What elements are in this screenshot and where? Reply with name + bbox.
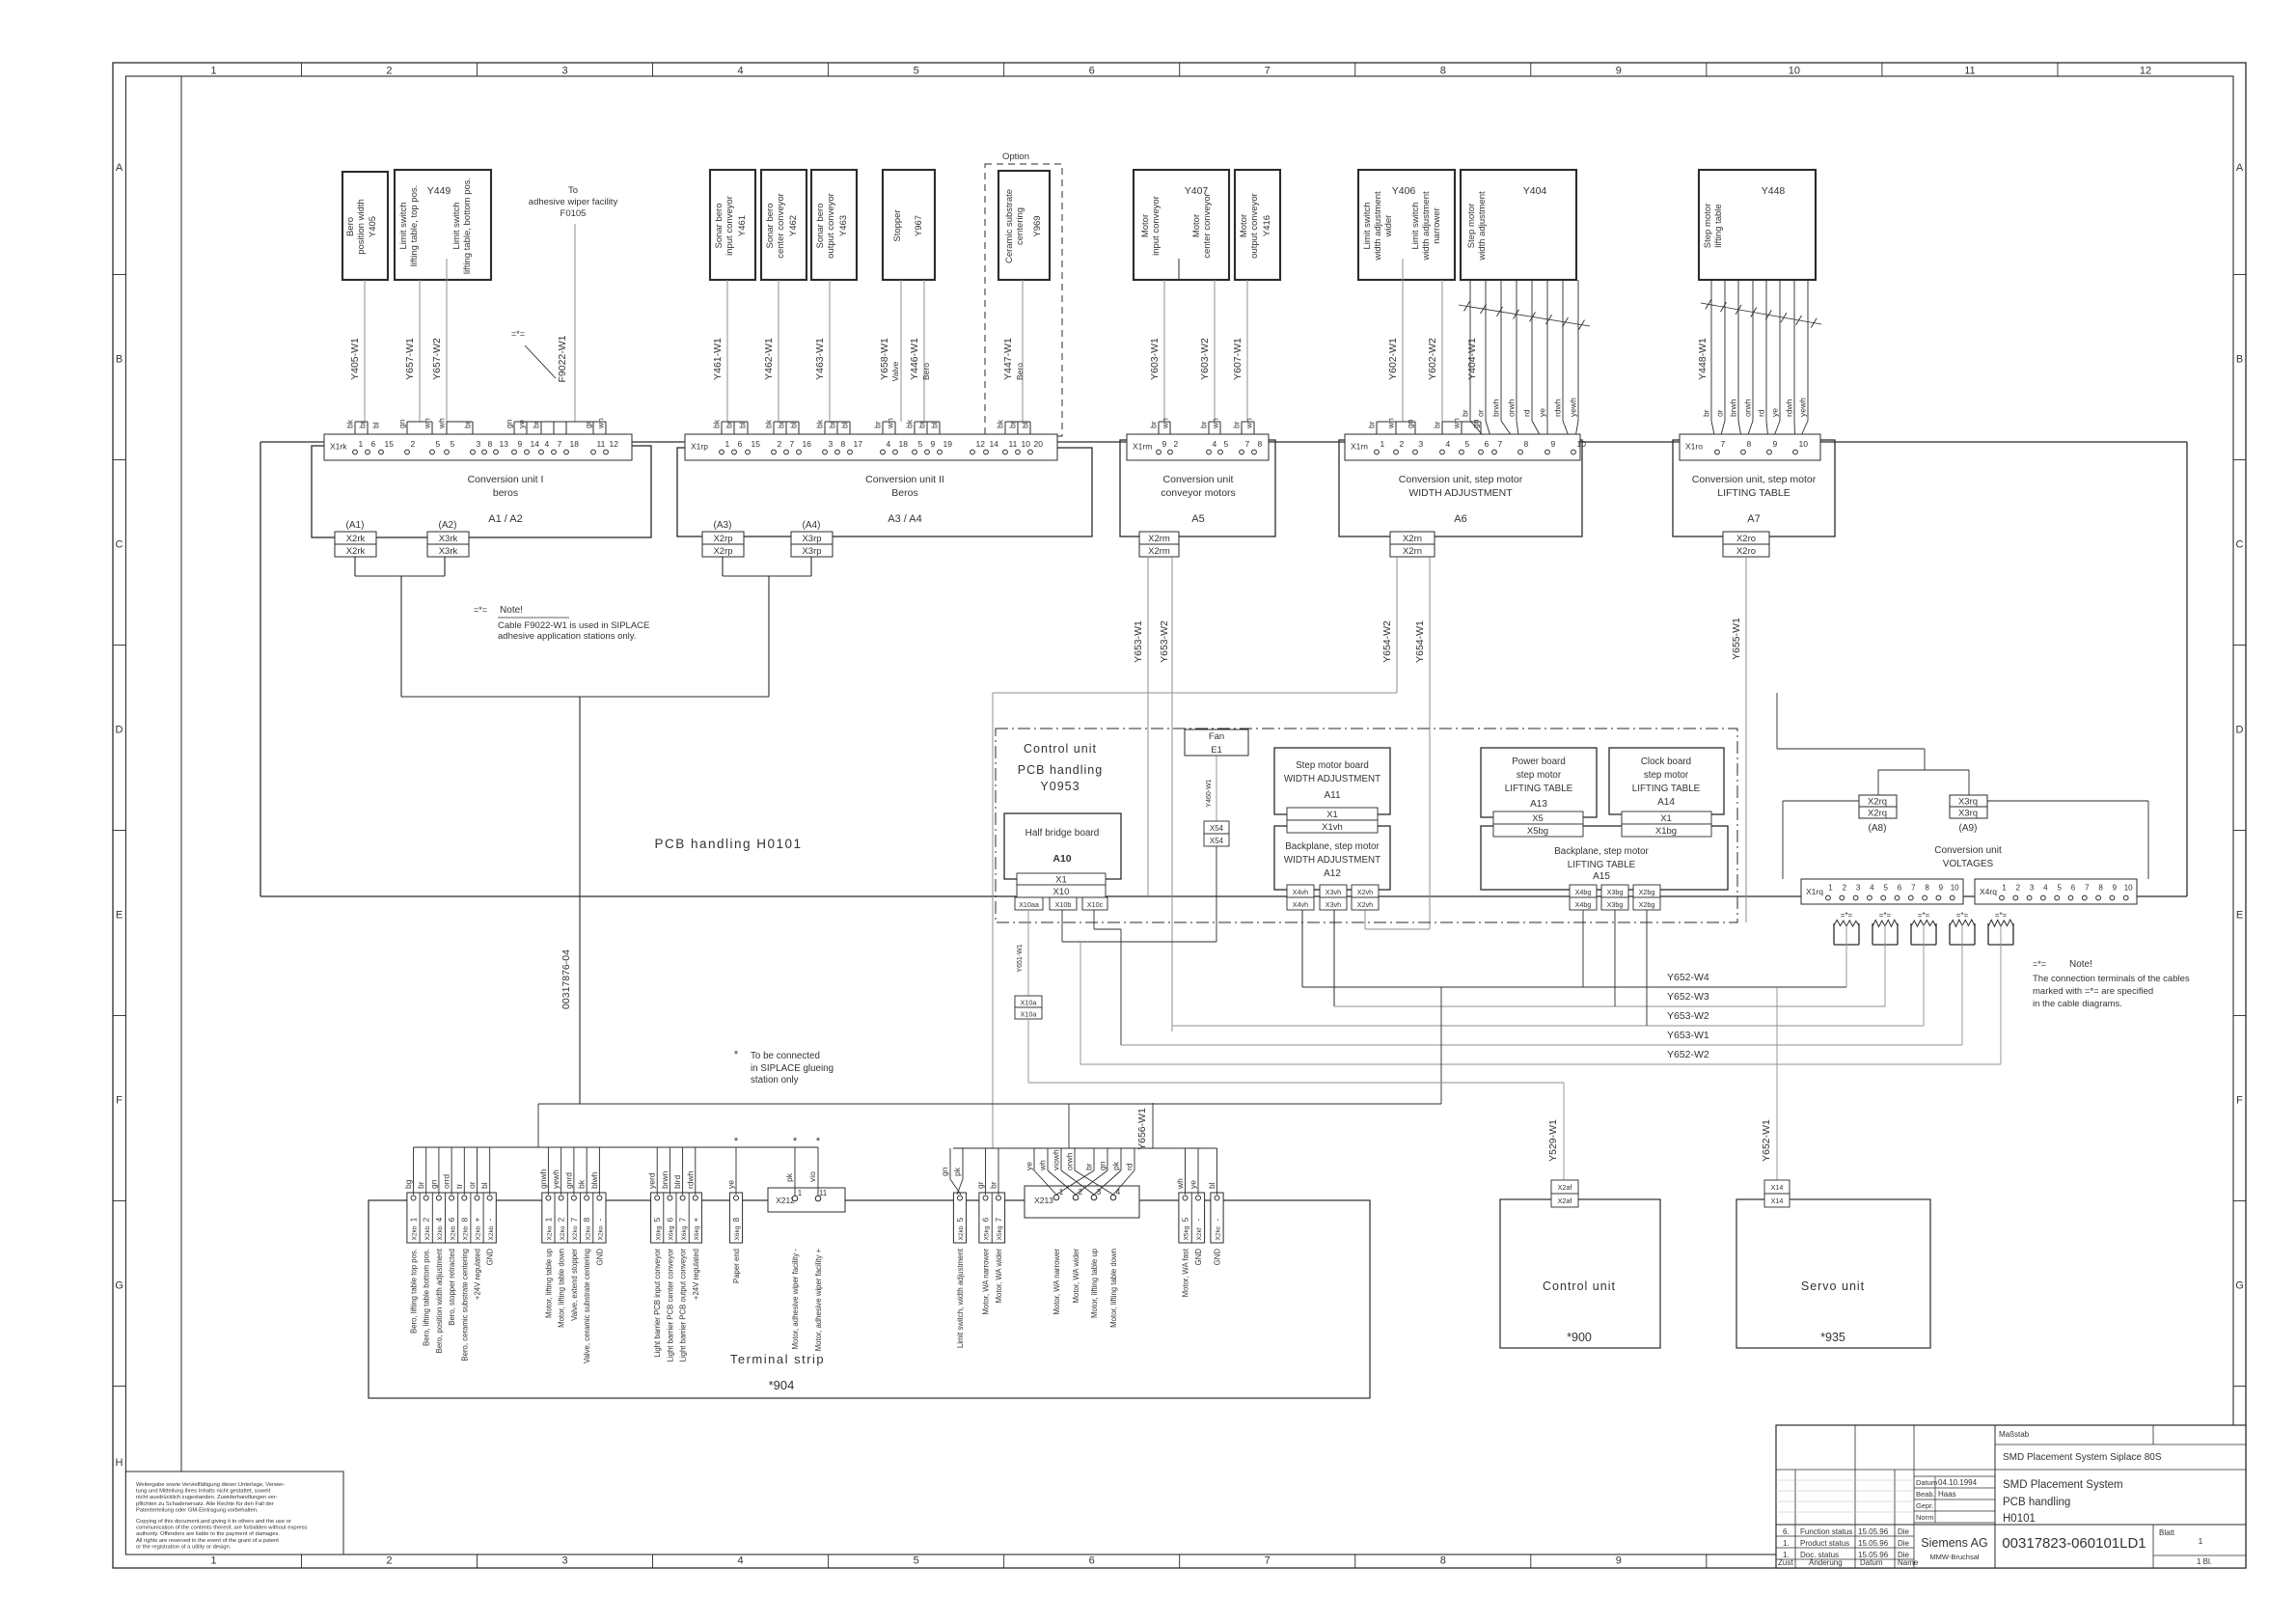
cable Y463-W1	[814, 280, 850, 449]
svg-text:X3rp: X3rp	[802, 534, 821, 544]
svg-text:8: 8	[841, 439, 846, 449]
svg-text:wh: wh	[1038, 1160, 1048, 1171]
svg-text:10: 10	[1799, 439, 1809, 449]
terminal strip X1rm	[1127, 434, 1269, 460]
svg-text:rd: rd	[1522, 409, 1532, 417]
svg-text:Y652-W2: Y652-W2	[1667, 1049, 1709, 1060]
svg-text:bl: bl	[1021, 422, 1030, 428]
svg-text:X4bg: X4bg	[1575, 888, 1592, 896]
svg-text:Motor, lifting table up: Motor, lifting table up	[544, 1248, 553, 1318]
svg-text:width adjustment: width adjustment	[1477, 191, 1488, 261]
svg-text:X2vh: X2vh	[1357, 900, 1373, 909]
svg-text:Copying of this document,and g: Copying of this document,and giving it t…	[136, 1519, 291, 1525]
svg-text:4: 4	[435, 1217, 444, 1222]
svg-text:Y448-W1: Y448-W1	[1697, 338, 1708, 380]
svg-text:bl: bl	[930, 422, 940, 428]
svg-text:X6kg: X6kg	[694, 1225, 700, 1240]
svg-text:X2kb: X2kb	[958, 1225, 965, 1240]
svg-text:X1vh: X1vh	[1322, 822, 1343, 833]
svg-text:Y404-W1: Y404-W1	[1466, 338, 1478, 380]
svg-text:Y405: Y405	[368, 216, 378, 237]
svg-text:Y602-W2: Y602-W2	[1427, 338, 1438, 380]
svg-text:19: 19	[943, 439, 953, 449]
svg-text:rd: rd	[1757, 409, 1766, 417]
step motor Y404 (width adjustment)	[1461, 170, 1576, 280]
unit conversion unit VOLTAGES	[1934, 845, 2002, 869]
svg-text:-: -	[1194, 1218, 1203, 1221]
svg-text:SMD Placement System Siplace 8: SMD Placement System Siplace 80S	[2003, 1452, 2162, 1463]
svg-text:yerd: yerd	[647, 1172, 657, 1189]
svg-text:3: 3	[561, 1555, 567, 1567]
svg-text:lifting table: lifting table	[1713, 204, 1724, 247]
svg-text:Y449: Y449	[427, 185, 451, 197]
terminal X6kg-8 paper end	[726, 1147, 743, 1283]
connector X10 (A10)	[1017, 885, 1106, 897]
svg-text:wider: wider	[1383, 215, 1394, 238]
svg-text:X2ko: X2ko	[560, 1225, 566, 1240]
svg-text:7: 7	[1911, 884, 1916, 893]
svg-text:7: 7	[2085, 884, 2090, 893]
svg-text:=*=: =*=	[1956, 911, 1969, 920]
svg-text:3: 3	[1419, 439, 1424, 449]
limit switch unit Y449 (lifting table top/bottom)	[395, 170, 491, 280]
svg-text:04.10.1994: 04.10.1994	[1938, 1478, 1978, 1487]
svg-text:Y967: Y967	[914, 215, 924, 236]
svg-text:B: B	[116, 354, 123, 366]
svg-text:Name: Name	[1898, 1558, 1919, 1567]
svg-text:10: 10	[1577, 439, 1587, 449]
svg-text:X2bg: X2bg	[1639, 888, 1655, 896]
svg-text:15.05.96: 15.05.96	[1858, 1539, 1889, 1548]
svg-text:gr: gr	[584, 421, 593, 428]
svg-text:Maßstab: Maßstab	[1999, 1430, 2030, 1439]
svg-text:br: br	[1461, 409, 1470, 417]
svg-text:Y529-W1: Y529-W1	[1547, 1119, 1559, 1162]
svg-text:WIDTH ADJUSTMENT: WIDTH ADJUSTMENT	[1284, 774, 1380, 784]
svg-text:5: 5	[1182, 1217, 1190, 1222]
svg-text:Conversion unit I: Conversion unit I	[468, 474, 544, 485]
option dashed enclosure	[985, 151, 1062, 436]
svg-text:rd: rd	[1125, 1163, 1134, 1170]
svg-text:X2ro: X2ro	[1736, 534, 1756, 544]
svg-text:ye: ye	[517, 420, 527, 428]
svg-text:Siemens AG: Siemens AG	[1921, 1536, 1987, 1550]
svg-text:Norm: Norm	[1916, 1513, 1933, 1522]
svg-text:2: 2	[386, 1555, 392, 1567]
limit switch unit Y406 (width adjustment wider/narrower)	[1358, 170, 1455, 280]
wire X3bg drop	[1614, 910, 1616, 1006]
wire Y653-W1 bus	[1094, 910, 1962, 1045]
terminal group X6kg 5-+	[647, 1147, 702, 1362]
svg-text:Y969: Y969	[1032, 215, 1043, 236]
cable Y653-W1	[1133, 557, 1148, 896]
connector X1bg	[1622, 824, 1711, 837]
svg-text:6: 6	[448, 1217, 456, 1222]
svg-text:X2rn: X2rn	[1403, 546, 1422, 557]
svg-text:A: A	[2236, 162, 2244, 174]
svg-text:16: 16	[803, 439, 812, 449]
svg-text:5: 5	[914, 1555, 919, 1567]
svg-text:Product status: Product status	[1800, 1539, 1849, 1548]
svg-text:X2rm: X2rm	[1148, 534, 1170, 544]
svg-text:PCB handling: PCB handling	[2003, 1497, 2070, 1508]
wire bottom bus y1144	[538, 1103, 1441, 1105]
connector X5	[1493, 811, 1583, 824]
svg-text:wh: wh	[1211, 418, 1220, 429]
svg-text:A14: A14	[1657, 797, 1675, 808]
svg-text:=*=: =*=	[1841, 911, 1853, 920]
svg-text:X3bg: X3bg	[1607, 900, 1624, 909]
svg-text:1: 1	[1380, 439, 1385, 449]
cable Y655-W1	[1731, 557, 1746, 922]
svg-text:Y406: Y406	[1392, 185, 1416, 197]
svg-text:Clock board: Clock board	[1641, 756, 1691, 767]
svg-text:9: 9	[1773, 439, 1778, 449]
wire Y652-W3	[1334, 910, 1885, 1006]
svg-text:2: 2	[2016, 884, 2021, 893]
svg-text:X2ko: X2ko	[585, 1225, 591, 1240]
svg-text:Weitergabe sowie Vervielfältig: Weitergabe sowie Vervielfältigung dieser…	[136, 1482, 285, 1488]
terminal group X5kg 6-7	[975, 1148, 1005, 1315]
cable Y460-W1	[1206, 756, 1216, 821]
svg-text:adhesive application stations: adhesive application stations only.	[498, 631, 636, 642]
svg-text:15: 15	[752, 439, 761, 449]
svg-text:pflichten zu Schadenersatz. Al: pflichten zu Schadenersatz. Alle Rechte …	[136, 1501, 274, 1507]
svg-text:-: -	[1214, 1218, 1222, 1221]
svg-text:Power board: Power board	[1512, 756, 1566, 767]
sensor Y969 (Ceramic substrate centering)	[998, 171, 1050, 280]
terminal strip X1rn	[1345, 434, 1586, 460]
svg-text:width adjustment: width adjustment	[1421, 191, 1432, 261]
svg-text:5: 5	[653, 1217, 662, 1222]
svg-text:9: 9	[931, 439, 936, 449]
svg-text:9: 9	[1616, 1555, 1622, 1567]
svg-text:Gepr.: Gepr.	[1916, 1501, 1933, 1510]
svg-text:wh: wh	[1161, 418, 1170, 429]
connector X1 (A11)	[1287, 808, 1378, 820]
svg-text:br: br	[463, 421, 473, 428]
wire Y653-W2 bus	[1172, 924, 1924, 1026]
svg-text:adhesive wiper facility: adhesive wiper facility	[529, 197, 618, 207]
svg-text:rdwh: rdwh	[685, 1170, 695, 1189]
terminal strip X1rp	[685, 434, 1057, 460]
svg-text:7: 7	[570, 1217, 579, 1222]
wire under-units horizontal	[401, 696, 769, 698]
conversion unit step motor LIFTING TABLE (A7)	[1673, 440, 1835, 536]
svg-text:D: D	[116, 725, 123, 736]
svg-text:X4vh: X4vh	[1293, 900, 1308, 909]
svg-text:X2ro: X2ro	[1736, 546, 1756, 557]
svg-text:br: br	[1433, 421, 1442, 428]
svg-text:7: 7	[1265, 1555, 1271, 1567]
cable termination symbol 2	[1872, 911, 1898, 945]
svg-text:1: 1	[210, 66, 216, 77]
wire 00317876-04 vertical	[560, 697, 580, 1104]
svg-text:vio: vio	[807, 1171, 817, 1182]
cable Y658-W1 (valve)	[873, 280, 902, 449]
svg-text:wh: wh	[1244, 418, 1254, 429]
svg-text:Limit switch: Limit switch	[451, 202, 462, 249]
cable Y657-W1	[397, 280, 433, 449]
title block	[1776, 1425, 2246, 1568]
svg-text:Y463-W1: Y463-W1	[814, 338, 826, 380]
wire X3rq to X4rq	[1987, 801, 2148, 879]
svg-text:Y652-W1: Y652-W1	[1761, 1119, 1772, 1162]
svg-text:br: br	[989, 1181, 998, 1189]
svg-text:br: br	[1084, 1163, 1094, 1170]
svg-text:Y654-W1: Y654-W1	[1414, 620, 1426, 663]
svg-text:Y407: Y407	[1185, 185, 1209, 197]
wire A3/A4 connectors to bus	[723, 557, 811, 697]
cable Y654-W1	[1365, 557, 1430, 929]
svg-text:7: 7	[558, 439, 562, 449]
svg-text:1: 1	[725, 439, 730, 449]
svg-text:2: 2	[423, 1217, 431, 1222]
svg-text:position width: position width	[356, 199, 367, 255]
connector X10b	[1050, 897, 1077, 910]
svg-text:(A1): (A1)	[346, 520, 365, 531]
svg-text:20: 20	[1034, 439, 1044, 449]
connector X2ro	[1723, 532, 1769, 557]
svg-text:X5bg: X5bg	[1527, 826, 1548, 837]
svg-text:-: -	[595, 1218, 604, 1221]
connector X2af	[1551, 1180, 1578, 1207]
svg-text:X10a: X10a	[1021, 999, 1037, 1007]
svg-text:7: 7	[790, 439, 795, 449]
svg-text:1: 1	[359, 439, 364, 449]
svg-text:input conveyor: input conveyor	[1151, 196, 1162, 256]
svg-text:12: 12	[610, 439, 619, 449]
svg-text:X2af: X2af	[1558, 1197, 1572, 1205]
svg-text:Y405-W1: Y405-W1	[349, 338, 361, 380]
svg-text:Y653-W2: Y653-W2	[1159, 620, 1170, 663]
svg-text:8: 8	[583, 1217, 591, 1222]
step motor Y448 (lifting table)	[1699, 170, 1816, 280]
svg-text:Bero, ceramic substrate center: Bero, ceramic substrate centering	[460, 1249, 469, 1362]
svg-text:Light barrier PCB center conve: Light barrier PCB center conveyor	[666, 1249, 674, 1362]
cable Y652-W1	[1761, 987, 1777, 1180]
svg-text:X2ko: X2ko	[598, 1225, 605, 1240]
svg-text:+24V regulated: +24V regulated	[474, 1249, 482, 1300]
svg-text:9: 9	[2113, 884, 2118, 893]
svg-text:Y462: Y462	[788, 215, 799, 236]
svg-text:beros: beros	[493, 487, 518, 499]
wire X2rq to X1rq	[1783, 801, 1859, 879]
cable F9022-W1	[505, 224, 607, 449]
svg-text:X2rk: X2rk	[346, 546, 366, 557]
svg-text:wh: wh	[886, 418, 895, 429]
svg-text:X2kb: X2kb	[424, 1225, 431, 1240]
svg-text:Y652-W4: Y652-W4	[1667, 972, 1709, 983]
svg-text:Y655-W1: Y655-W1	[1731, 618, 1742, 660]
svg-text:Y463: Y463	[838, 215, 849, 236]
svg-text:Motor, WA wider: Motor, WA wider	[995, 1249, 1003, 1304]
svg-text:00317823-060101LD1: 00317823-060101LD1	[2002, 1535, 2146, 1552]
wire top bus between strips	[260, 441, 2187, 443]
svg-text:br: br	[777, 421, 786, 428]
svg-text:wh: wh	[1452, 418, 1462, 429]
wire gn/pk crossing	[940, 1148, 963, 1195]
svg-text:Änderung: Änderung	[1809, 1558, 1843, 1567]
cable Y603-W1	[1149, 280, 1171, 449]
svg-text:4: 4	[1213, 439, 1217, 449]
fan E1	[1185, 729, 1248, 756]
divider stub Y407 box	[1178, 259, 1180, 280]
svg-text:3: 3	[1856, 884, 1861, 893]
svg-text:pk: pk	[1111, 1161, 1121, 1170]
svg-text:pk: pk	[784, 1172, 794, 1182]
svg-text:VOLTAGES: VOLTAGES	[1943, 859, 1994, 869]
terminal group X2kb 1-GND	[403, 1147, 496, 1362]
svg-text:Y602-W1: Y602-W1	[1387, 338, 1399, 380]
svg-text:Terminal strip: Terminal strip	[730, 1352, 825, 1366]
connector X1vh	[1287, 820, 1378, 833]
terminal group X5kg-5/X2kf	[1175, 1148, 1205, 1297]
svg-text:Backplane, step motor: Backplane, step motor	[1285, 841, 1380, 852]
svg-text:11: 11	[597, 439, 606, 449]
svg-text:ye: ye	[1025, 1162, 1034, 1170]
cable Y461-W1	[712, 280, 749, 449]
svg-text:X5kg: X5kg	[997, 1225, 1003, 1240]
svg-text:Datum: Datum	[1916, 1478, 1937, 1487]
wire X54 to X10b	[1062, 846, 1216, 942]
svg-text:X2kb: X2kb	[488, 1225, 495, 1240]
svg-text:step motor: step motor	[1517, 770, 1562, 781]
svg-text:4: 4	[545, 439, 550, 449]
connector X10aa	[1015, 897, 1043, 910]
svg-text:viowh: viowh	[1052, 1149, 1061, 1170]
connector X3vh	[1320, 885, 1347, 910]
svg-text:A3 / A4: A3 / A4	[888, 513, 921, 525]
svg-text:X1bg: X1bg	[1655, 826, 1677, 837]
svg-text:A15: A15	[1593, 871, 1610, 882]
wire Y652-W4	[1302, 910, 1846, 987]
svg-text:Y603-W2: Y603-W2	[1199, 338, 1211, 380]
terminal strip X4rq	[1975, 879, 2137, 904]
svg-text:bl: bl	[789, 422, 799, 428]
svg-text:gn: gn	[1098, 1161, 1107, 1170]
svg-text:=*=: =*=	[511, 329, 525, 339]
svg-text:*904: *904	[769, 1378, 795, 1392]
svg-text:18: 18	[899, 439, 909, 449]
svg-text:Motor: Motor	[1239, 214, 1249, 237]
motor Y416 (output conveyor)	[1235, 170, 1280, 280]
svg-text:*900: *900	[1567, 1331, 1592, 1344]
svg-text:Haas: Haas	[1938, 1490, 1956, 1499]
svg-text:3: 3	[829, 439, 834, 449]
svg-text:authority. Offenders are liabl: authority. Offenders are liable to the p…	[136, 1531, 280, 1537]
cable Y656-W1	[1136, 1103, 1153, 1150]
svg-text:7: 7	[995, 1217, 1003, 1222]
cable Y653-W2	[1159, 557, 1172, 1032]
svg-text:Sonar bero: Sonar bero	[815, 203, 826, 248]
svg-text:br: br	[416, 1181, 425, 1189]
svg-text:A12: A12	[1324, 868, 1341, 879]
svg-text:yewh: yewh	[1569, 398, 1578, 417]
svg-text:E: E	[116, 910, 123, 922]
svg-text:blwh: blwh	[589, 1171, 599, 1189]
svg-text:14: 14	[990, 439, 999, 449]
cable termination symbol 1	[1834, 911, 1859, 945]
svg-text:3: 3	[1097, 1188, 1102, 1197]
svg-text:bl: bl	[738, 422, 748, 428]
svg-text:F: F	[2236, 1095, 2243, 1107]
wire riser to bus	[537, 1104, 539, 1147]
svg-text:X10c: X10c	[1087, 900, 1104, 909]
svg-text:ye: ye	[726, 1180, 736, 1189]
svg-text:Bero, lifting table top pos.: Bero, lifting table top pos.	[410, 1249, 419, 1334]
connector X1 (A14)	[1622, 811, 1711, 824]
svg-text:ye: ye	[1538, 408, 1547, 417]
svg-text:marked with =*= are specified: marked with =*= are specified	[2033, 986, 2153, 997]
svg-text:Limit switch: Limit switch	[1410, 202, 1421, 249]
label X213 descriptions	[1052, 1248, 1118, 1328]
backplane A15	[1481, 826, 1728, 890]
svg-text:A: A	[116, 162, 123, 174]
svg-text:X213: X213	[1034, 1196, 1053, 1205]
note F9022 usage	[474, 605, 649, 642]
svg-text:gr: gr	[975, 1181, 985, 1189]
svg-text:X5kg: X5kg	[1184, 1225, 1190, 1240]
svg-text:Conversion unit: Conversion unit	[1934, 845, 2002, 856]
svg-text:6: 6	[666, 1217, 674, 1222]
svg-text:Y653-W2: Y653-W2	[1667, 1010, 1709, 1022]
svg-text:+24V regulated: +24V regulated	[692, 1249, 700, 1300]
svg-text:or: or	[1715, 409, 1725, 417]
svg-text:15: 15	[385, 439, 395, 449]
svg-text:X2kb: X2kb	[450, 1225, 456, 1240]
sensor Y405 (Bero position width)	[342, 172, 388, 280]
svg-text:X2bg: X2bg	[1639, 900, 1655, 909]
svg-text:Motor, WA wider: Motor, WA wider	[1072, 1249, 1080, 1304]
wire right enclosure edge	[2186, 442, 2188, 896]
svg-text:6: 6	[1898, 884, 1902, 893]
svg-text:10: 10	[1789, 66, 1800, 77]
svg-text:bl: bl	[840, 422, 850, 428]
svg-text:lifting table, bottom pos.: lifting table, bottom pos.	[462, 178, 473, 274]
svg-text:wh: wh	[596, 418, 606, 429]
svg-text:Half bridge board: Half bridge board	[1025, 828, 1100, 839]
cable Y448-W1 (8-wire fan to A7)	[1697, 280, 1821, 449]
svg-text:3: 3	[561, 66, 567, 77]
svg-text:yewh: yewh	[551, 1169, 560, 1189]
svg-text:bk: bk	[577, 1179, 587, 1189]
svg-text:X2kb: X2kb	[437, 1225, 444, 1240]
svg-text:Y461-W1: Y461-W1	[712, 338, 724, 380]
svg-text:All rights are reserved in the: All rights are reserved in the event of …	[136, 1538, 279, 1544]
connector (A4) X3rp	[803, 520, 821, 531]
svg-text:4: 4	[738, 66, 744, 77]
wire grey mid horizontal	[993, 693, 1397, 1148]
svg-text:9: 9	[518, 439, 523, 449]
svg-text:gn: gn	[505, 419, 514, 428]
svg-text:F9022-W1: F9022-W1	[557, 335, 568, 382]
svg-text:LIFTING TABLE: LIFTING TABLE	[1505, 784, 1573, 794]
svg-text:7: 7	[679, 1217, 688, 1222]
connector (A2) X3rk	[439, 520, 457, 531]
svg-text:-: -	[486, 1218, 495, 1221]
svg-text:4: 4	[1446, 439, 1451, 449]
svg-text:Motor, adhesive wiper facility: Motor, adhesive wiper facility -	[791, 1249, 800, 1350]
note =*= cable diagrams	[2033, 959, 2190, 1009]
svg-text:Sonar bero: Sonar bero	[714, 203, 724, 248]
wire A1/A2 connectors to bus	[355, 557, 445, 697]
svg-text:Y447-W1: Y447-W1	[1002, 338, 1014, 380]
svg-text:11: 11	[1964, 66, 1975, 77]
svg-text:(A2): (A2)	[439, 520, 457, 531]
svg-text:wh: wh	[1175, 1178, 1185, 1190]
svg-text:Note!: Note!	[500, 605, 523, 616]
